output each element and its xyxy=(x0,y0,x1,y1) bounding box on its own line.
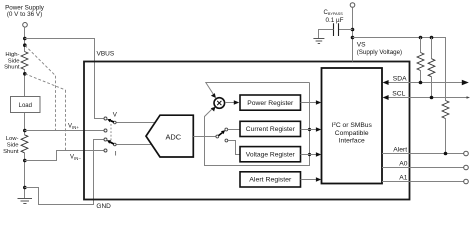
svg-text:Current Register: Current Register xyxy=(246,126,296,133)
junction dot shunt bottom xyxy=(23,72,27,76)
wire alert register to interface xyxy=(301,177,322,181)
wire left supply rail xyxy=(24,27,26,198)
node VS label xyxy=(357,41,402,56)
ground bypass cap xyxy=(313,39,324,44)
terminal A0 xyxy=(464,165,469,170)
svg-text:(Supply Voltage): (Supply Voltage) xyxy=(357,49,402,56)
wire VIN- xyxy=(25,151,104,161)
junction dot rail tap xyxy=(351,36,355,40)
wire to voltage register xyxy=(228,141,240,155)
interface box U1 xyxy=(322,68,383,184)
svg-text:SDA: SDA xyxy=(393,75,407,82)
svg-text:Compatible: Compatible xyxy=(335,130,369,137)
wire voltage feed to multiplier xyxy=(206,83,310,99)
op-amp ADC xyxy=(146,115,193,157)
svg-text:Load: Load xyxy=(19,103,32,109)
junction dot supply to VBUS xyxy=(23,37,27,41)
resistor SCL pull-up xyxy=(428,38,435,98)
svg-text:Power Register: Power Register xyxy=(247,100,294,107)
svg-text:0.1 µF: 0.1 µF xyxy=(326,17,344,24)
svg-text:A0: A0 xyxy=(399,161,407,168)
wire GND pin xyxy=(25,140,104,205)
svg-text:Side: Side xyxy=(7,143,20,149)
register Alert xyxy=(240,172,301,187)
junction dot SDA pull-up xyxy=(419,36,423,40)
multiplier xyxy=(214,98,225,109)
label high-side shunt xyxy=(4,52,20,71)
switch input mux xyxy=(104,112,118,158)
junction dot bus current xyxy=(308,128,311,131)
wire power register to interface xyxy=(301,100,322,104)
junction dot SCL xyxy=(430,96,434,100)
wire Alert xyxy=(382,153,464,155)
ground supply side xyxy=(18,199,33,204)
junction dot ground tap xyxy=(23,186,27,190)
wire A1 xyxy=(382,181,464,183)
svg-text:Side: Side xyxy=(8,58,21,64)
terminal VS supply xyxy=(350,3,355,8)
svg-text:Low-: Low- xyxy=(6,136,19,142)
junction dot VIN+ tap xyxy=(23,129,27,133)
terminal A1 xyxy=(464,179,469,184)
wire SDA xyxy=(383,80,469,86)
junction dot cap tap xyxy=(351,28,355,32)
resistor high-side shunt xyxy=(21,52,28,70)
svg-text:GND: GND xyxy=(96,203,111,210)
wire voltage register to interface xyxy=(301,152,322,156)
register Voltage xyxy=(240,147,301,162)
svg-text:I2C or SMBus: I2C or SMBus xyxy=(332,121,373,129)
terminal power supply input xyxy=(23,23,28,28)
register Current xyxy=(240,121,301,136)
svg-text:ADC: ADC xyxy=(165,133,181,142)
wire register bus xyxy=(309,83,311,155)
svg-text:VS: VS xyxy=(357,41,366,48)
wire mux pole2 to ADC xyxy=(116,144,151,146)
wire bus lower feed to multiplier xyxy=(205,107,310,166)
wire VIN+ xyxy=(25,130,104,132)
load box xyxy=(11,97,41,113)
register Power xyxy=(240,95,301,110)
resistor Alert pull-up xyxy=(442,101,449,154)
svg-text:Alert Register: Alert Register xyxy=(249,177,292,184)
wire current register to interface xyxy=(301,127,322,131)
resistor SDA pull-up xyxy=(417,38,424,83)
label C_BYPASS xyxy=(324,10,344,24)
wire VBUS from supply xyxy=(25,39,104,119)
junction dot SCL pull-up xyxy=(430,36,434,40)
wire A0 xyxy=(382,167,464,169)
terminal Alert xyxy=(464,151,469,156)
resistor low-side shunt xyxy=(21,135,28,153)
wire supply rail to pull-ups xyxy=(353,38,446,101)
device outer box xyxy=(84,62,410,200)
svg-text:VBUS: VBUS xyxy=(97,51,115,58)
junction dot VIN- tap xyxy=(23,159,27,163)
capacitor C_BYPASS xyxy=(319,23,353,38)
svg-text:Voltage Register: Voltage Register xyxy=(246,152,296,159)
wire multiplier to power register xyxy=(225,100,239,105)
svg-text:VIN−: VIN− xyxy=(70,154,81,161)
junction dot supply to dashed VIN+ xyxy=(23,43,27,47)
svg-text:Shunt: Shunt xyxy=(4,65,20,71)
wire to current register xyxy=(228,129,240,131)
label low-side shunt xyxy=(3,136,19,155)
svg-text:A1: A1 xyxy=(399,175,407,182)
svg-text:Shunt: Shunt xyxy=(3,149,19,155)
svg-text:Alert: Alert xyxy=(393,147,407,154)
wire SCL xyxy=(383,95,470,100)
svg-text:Interface: Interface xyxy=(339,137,365,144)
junction dot Alert pull-up bottom xyxy=(444,152,448,156)
wire mux pole1 to ADC xyxy=(116,122,155,124)
wire dashed alternate VIN- xyxy=(25,74,66,90)
svg-text:High-: High- xyxy=(5,52,19,58)
wire dashed alternate VIN+ xyxy=(25,45,56,75)
svg-text:SCL: SCL xyxy=(392,90,405,97)
wire VS xyxy=(352,7,354,61)
junction dot bus voltage xyxy=(308,153,311,156)
svg-text:VIN+: VIN+ xyxy=(68,124,79,131)
switch register select xyxy=(216,128,228,142)
wire ADC output xyxy=(193,136,216,138)
svg-text:(0 V to 36 V): (0 V to 36 V) xyxy=(7,11,42,18)
junction dot SDA xyxy=(419,81,423,85)
svg-text:I: I xyxy=(115,151,117,158)
node Power Supply label xyxy=(5,4,45,17)
